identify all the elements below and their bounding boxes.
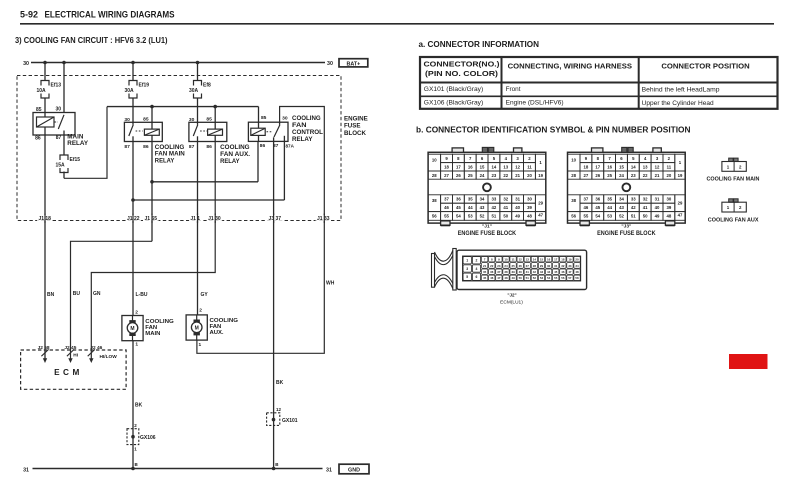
svg-text:40: 40 xyxy=(655,205,660,210)
svg-text:38: 38 xyxy=(432,198,437,203)
svg-text:b. CONNECTOR IDENTIFICATION SY: b. CONNECTOR IDENTIFICATION SYMBOL & PIN… xyxy=(416,126,691,135)
svg-text:31: 31 xyxy=(655,197,660,202)
svg-text:50: 50 xyxy=(503,214,508,219)
svg-text:35: 35 xyxy=(607,197,612,202)
svg-text:40: 40 xyxy=(515,205,520,210)
svg-text:21: 21 xyxy=(483,264,487,268)
svg-text:1: 1 xyxy=(199,342,202,348)
svg-text:30: 30 xyxy=(666,197,671,202)
svg-text:13: 13 xyxy=(643,165,648,170)
svg-text:11: 11 xyxy=(667,165,672,170)
svg-text:RELAY: RELAY xyxy=(292,136,313,143)
svg-text:32: 32 xyxy=(561,264,565,268)
svg-text:RELAY: RELAY xyxy=(220,158,240,165)
svg-text:a. CONNECTOR INFORMATION: a. CONNECTOR INFORMATION xyxy=(419,40,540,49)
svg-text:30: 30 xyxy=(282,116,288,122)
svg-text:43: 43 xyxy=(540,270,544,274)
svg-text:43: 43 xyxy=(619,205,624,210)
svg-text:25: 25 xyxy=(607,173,612,178)
svg-text:14: 14 xyxy=(533,258,537,262)
svg-text:13: 13 xyxy=(526,258,530,262)
svg-text:48: 48 xyxy=(666,214,671,219)
svg-text:WH: WH xyxy=(326,280,335,286)
svg-text:GX106 (Black/Gray): GX106 (Black/Gray) xyxy=(424,99,483,106)
svg-text:BAT+: BAT+ xyxy=(346,61,360,67)
svg-text:30: 30 xyxy=(55,106,61,112)
svg-text:31: 31 xyxy=(554,264,558,268)
svg-text:87: 87 xyxy=(189,144,195,150)
svg-text:50: 50 xyxy=(643,214,648,219)
svg-text:53: 53 xyxy=(468,214,473,219)
svg-text:33: 33 xyxy=(492,197,497,202)
svg-text:25: 25 xyxy=(468,173,473,178)
svg-text:37: 37 xyxy=(584,197,589,202)
svg-text:"J3": "J3" xyxy=(621,223,631,229)
svg-text:15: 15 xyxy=(540,258,544,262)
svg-text:45: 45 xyxy=(483,276,487,280)
svg-text:47: 47 xyxy=(497,276,501,280)
svg-text:4: 4 xyxy=(476,267,478,271)
svg-text:46: 46 xyxy=(490,276,494,280)
svg-text:J1 30: J1 30 xyxy=(208,216,221,222)
svg-text:26: 26 xyxy=(519,264,523,268)
svg-text:11: 11 xyxy=(527,165,532,170)
svg-text:42: 42 xyxy=(631,205,636,210)
svg-text:47: 47 xyxy=(538,213,543,218)
svg-text:48: 48 xyxy=(504,276,508,280)
svg-text:53: 53 xyxy=(607,214,612,219)
svg-text:33: 33 xyxy=(631,197,636,202)
svg-text:17: 17 xyxy=(595,165,600,170)
svg-text:GN: GN xyxy=(93,291,101,297)
svg-text:47: 47 xyxy=(678,213,683,218)
svg-text:32: 32 xyxy=(503,197,508,202)
svg-text:52: 52 xyxy=(480,214,485,219)
svg-text:45: 45 xyxy=(456,205,461,210)
svg-text:2: 2 xyxy=(476,259,478,263)
svg-text:30: 30 xyxy=(327,61,333,67)
svg-text:HI: HI xyxy=(73,353,78,359)
svg-text:27: 27 xyxy=(444,173,449,178)
svg-text:21: 21 xyxy=(515,173,520,178)
svg-text:10: 10 xyxy=(571,158,576,163)
svg-text:25: 25 xyxy=(511,264,515,268)
svg-text:12: 12 xyxy=(276,407,282,412)
svg-text:30: 30 xyxy=(527,197,532,202)
svg-text:53: 53 xyxy=(540,276,544,280)
svg-text:27: 27 xyxy=(526,264,530,268)
svg-text:15: 15 xyxy=(480,165,485,170)
svg-text:Ef15: Ef15 xyxy=(70,157,81,163)
svg-text:Ef8: Ef8 xyxy=(203,83,211,89)
svg-text:16: 16 xyxy=(607,165,612,170)
svg-text:50: 50 xyxy=(519,276,523,280)
svg-text:ENGINE FUSE BLOCK: ENGINE FUSE BLOCK xyxy=(458,231,517,237)
svg-text:46: 46 xyxy=(444,205,449,210)
svg-text:35: 35 xyxy=(483,270,487,274)
svg-text:31: 31 xyxy=(23,468,29,474)
svg-text:MAIN: MAIN xyxy=(145,331,160,337)
svg-text:87: 87 xyxy=(124,144,130,150)
svg-text:14: 14 xyxy=(631,165,636,170)
svg-text:Engine (DSL/HFV6): Engine (DSL/HFV6) xyxy=(506,99,564,106)
svg-text:17: 17 xyxy=(456,165,461,170)
svg-text:6: 6 xyxy=(476,275,478,279)
svg-text:19: 19 xyxy=(568,258,572,262)
svg-text:28: 28 xyxy=(432,173,437,178)
svg-text:45: 45 xyxy=(595,205,600,210)
svg-text:30: 30 xyxy=(189,117,195,123)
svg-text:29: 29 xyxy=(538,201,543,206)
svg-text:37: 37 xyxy=(497,270,501,274)
svg-text:24: 24 xyxy=(619,173,624,178)
svg-text:38: 38 xyxy=(504,270,508,274)
svg-text:47: 47 xyxy=(568,270,572,274)
svg-text:ECM(LU1): ECM(LU1) xyxy=(500,300,523,306)
svg-text:12: 12 xyxy=(515,165,520,170)
svg-text:24: 24 xyxy=(480,173,485,178)
svg-text:"J2": "J2" xyxy=(507,293,516,298)
svg-text:1: 1 xyxy=(466,259,468,263)
svg-text:29: 29 xyxy=(678,201,683,206)
svg-text:30: 30 xyxy=(124,117,130,123)
svg-text:17: 17 xyxy=(554,258,558,262)
svg-text:43: 43 xyxy=(480,205,485,210)
svg-text:2: 2 xyxy=(135,309,138,315)
svg-text:52: 52 xyxy=(533,276,537,280)
svg-text:35: 35 xyxy=(468,197,473,202)
svg-text:3: 3 xyxy=(466,267,468,271)
svg-text:52: 52 xyxy=(619,214,624,219)
svg-text:41: 41 xyxy=(503,205,508,210)
svg-text:GX101 (Black/Gray): GX101 (Black/Gray) xyxy=(424,86,483,93)
svg-text:40: 40 xyxy=(519,270,523,274)
svg-text:COOLING: COOLING xyxy=(292,115,321,122)
svg-text:42: 42 xyxy=(533,270,537,274)
svg-text:5: 5 xyxy=(466,275,468,279)
svg-text:22: 22 xyxy=(643,173,648,178)
svg-text:55: 55 xyxy=(554,276,558,280)
svg-text:45: 45 xyxy=(554,270,558,274)
svg-text:BK: BK xyxy=(135,403,143,409)
svg-text:49: 49 xyxy=(511,276,515,280)
svg-text:56: 56 xyxy=(561,276,565,280)
svg-text:22: 22 xyxy=(503,173,508,178)
svg-text:RELAY: RELAY xyxy=(67,140,89,147)
svg-text:12: 12 xyxy=(655,165,660,170)
svg-text:56: 56 xyxy=(571,214,576,219)
svg-text:20: 20 xyxy=(666,173,671,178)
svg-text:37: 37 xyxy=(444,197,449,202)
svg-text:26: 26 xyxy=(456,173,461,178)
svg-text:18: 18 xyxy=(444,165,449,170)
svg-text:19: 19 xyxy=(538,173,543,178)
svg-text:57: 57 xyxy=(568,276,572,280)
svg-text:1: 1 xyxy=(135,341,138,347)
svg-text:J3 37: J3 37 xyxy=(269,216,282,222)
svg-text:10: 10 xyxy=(432,158,437,163)
svg-text:ENGINE FUSE BLOCK: ENGINE FUSE BLOCK xyxy=(597,231,656,237)
svg-text:11: 11 xyxy=(512,258,515,262)
svg-text:2: 2 xyxy=(199,308,202,314)
svg-text:COOLING FAN AUX: COOLING FAN AUX xyxy=(708,217,759,223)
svg-text:Behind the left HeadLamp: Behind the left HeadLamp xyxy=(642,87,720,94)
svg-text:38: 38 xyxy=(571,198,576,203)
svg-text:20: 20 xyxy=(527,173,532,178)
svg-text:Upper the Cylinder Head: Upper the Cylinder Head xyxy=(642,100,714,107)
svg-text:18: 18 xyxy=(561,258,565,262)
svg-text:24: 24 xyxy=(504,264,508,268)
svg-text:14: 14 xyxy=(492,165,497,170)
svg-text:RELAY: RELAY xyxy=(155,158,175,165)
svg-text:12: 12 xyxy=(519,258,523,262)
svg-text:30A: 30A xyxy=(189,88,199,94)
svg-text:54: 54 xyxy=(547,276,551,280)
svg-text:85: 85 xyxy=(206,116,212,122)
svg-text:56: 56 xyxy=(432,214,437,219)
svg-text:36: 36 xyxy=(595,197,600,202)
svg-text:GY: GY xyxy=(201,292,209,298)
svg-text:85: 85 xyxy=(143,116,149,122)
svg-text:CONTROL: CONTROL xyxy=(292,129,323,136)
svg-text:51: 51 xyxy=(526,276,530,280)
svg-text:30A: 30A xyxy=(125,88,135,94)
svg-text:3) COOLING FAN CIRCUIT : HFV6: 3) COOLING FAN CIRCUIT : HFV6 3.2 (LU1) xyxy=(15,36,168,45)
svg-text:27: 27 xyxy=(584,173,589,178)
svg-text:FAN: FAN xyxy=(292,122,307,129)
svg-text:BU: BU xyxy=(73,291,81,297)
svg-text:L-BU: L-BU xyxy=(136,292,148,298)
svg-text:15: 15 xyxy=(619,165,624,170)
svg-text:E C M: E C M xyxy=(54,368,80,377)
svg-text:M: M xyxy=(195,326,199,332)
svg-text:26: 26 xyxy=(595,173,600,178)
svg-text:36: 36 xyxy=(490,270,494,274)
svg-text:48: 48 xyxy=(527,214,532,219)
svg-text:49: 49 xyxy=(655,214,660,219)
svg-text:39: 39 xyxy=(511,270,515,274)
svg-text:(PIN NO. COLOR): (PIN NO. COLOR) xyxy=(425,69,499,78)
svg-text:34: 34 xyxy=(619,197,624,202)
svg-text:CONNECTING, WIRING HARNESS: CONNECTING, WIRING HARNESS xyxy=(508,61,632,70)
svg-text:41: 41 xyxy=(526,270,530,274)
svg-text:54: 54 xyxy=(456,214,461,219)
svg-text:85: 85 xyxy=(261,115,267,121)
svg-text:BLOCK: BLOCK xyxy=(344,130,367,137)
svg-text:31: 31 xyxy=(326,468,332,474)
svg-text:GX106: GX106 xyxy=(140,435,156,441)
svg-text:ELECTRICAL WIRING DIAGRAMS: ELECTRICAL WIRING DIAGRAMS xyxy=(45,10,175,20)
svg-text:J1 33: J1 33 xyxy=(317,216,330,222)
svg-text:87A: 87A xyxy=(286,143,295,148)
svg-text:41: 41 xyxy=(643,205,648,210)
svg-text:20: 20 xyxy=(575,258,579,262)
svg-text:29: 29 xyxy=(540,264,544,268)
svg-text:33: 33 xyxy=(568,264,572,268)
svg-text:48: 48 xyxy=(575,270,579,274)
svg-text:86: 86 xyxy=(143,144,149,150)
svg-text:44: 44 xyxy=(607,205,612,210)
svg-text:21: 21 xyxy=(655,173,660,178)
svg-text:42: 42 xyxy=(492,205,497,210)
svg-text:86: 86 xyxy=(206,144,212,150)
svg-text:18: 18 xyxy=(584,165,589,170)
svg-text:19: 19 xyxy=(678,173,683,178)
svg-text:22: 22 xyxy=(490,264,494,268)
svg-text:28: 28 xyxy=(571,173,576,178)
svg-text:Ef19: Ef19 xyxy=(139,83,150,89)
svg-text:86: 86 xyxy=(35,136,41,142)
svg-text:5-92: 5-92 xyxy=(20,10,38,20)
svg-text:Ef13: Ef13 xyxy=(51,83,62,89)
svg-text:HI/LOW: HI/LOW xyxy=(100,354,118,360)
svg-text:54: 54 xyxy=(595,214,600,219)
svg-text:J1 55: J1 55 xyxy=(145,216,158,222)
svg-text:J2 46: J2 46 xyxy=(90,345,102,351)
svg-text:J1 1: J1 1 xyxy=(190,216,200,222)
svg-text:23: 23 xyxy=(631,173,636,178)
svg-text:"J1": "J1" xyxy=(482,223,492,229)
svg-text:16: 16 xyxy=(468,165,473,170)
svg-text:ENGINE: ENGINE xyxy=(344,115,368,122)
svg-text:10A: 10A xyxy=(37,88,47,94)
svg-text:49: 49 xyxy=(515,214,520,219)
svg-text:GX101: GX101 xyxy=(282,418,298,424)
svg-text:46: 46 xyxy=(584,205,589,210)
svg-text:58: 58 xyxy=(575,276,579,280)
svg-text:COOLING: COOLING xyxy=(220,144,250,151)
svg-text:85: 85 xyxy=(36,107,42,113)
svg-text:55: 55 xyxy=(584,214,589,219)
svg-text:32: 32 xyxy=(643,197,648,202)
svg-text:23: 23 xyxy=(492,173,497,178)
svg-text:86: 86 xyxy=(260,143,266,149)
svg-text:55: 55 xyxy=(444,214,449,219)
svg-text:39: 39 xyxy=(666,205,671,210)
svg-text:16: 16 xyxy=(547,258,551,262)
svg-text:51: 51 xyxy=(631,214,636,219)
svg-text:Front: Front xyxy=(506,86,521,93)
svg-text:BK: BK xyxy=(276,380,284,386)
svg-text:J2 45: J2 45 xyxy=(64,345,76,351)
svg-text:87: 87 xyxy=(56,135,62,141)
svg-text:13: 13 xyxy=(503,165,508,170)
svg-text:15A: 15A xyxy=(56,163,66,169)
svg-text:GND: GND xyxy=(348,467,360,473)
svg-text:46: 46 xyxy=(561,270,565,274)
svg-text:CONNECTOR(NO.): CONNECTOR(NO.) xyxy=(424,60,501,69)
svg-text:30: 30 xyxy=(547,264,551,268)
svg-text:BN: BN xyxy=(47,292,55,298)
svg-text:AUX.: AUX. xyxy=(210,330,224,336)
svg-text:39: 39 xyxy=(527,205,532,210)
svg-text:36: 36 xyxy=(456,197,461,202)
svg-text:COOLING FAN MAIN: COOLING FAN MAIN xyxy=(707,176,760,182)
svg-text:34: 34 xyxy=(575,264,579,268)
svg-text:23: 23 xyxy=(497,264,501,268)
svg-text:34: 34 xyxy=(480,197,485,202)
svg-text:51: 51 xyxy=(492,214,497,219)
svg-text:10: 10 xyxy=(504,258,508,262)
svg-text:44: 44 xyxy=(547,270,551,274)
svg-text:28: 28 xyxy=(533,264,537,268)
svg-text:31: 31 xyxy=(515,197,520,202)
svg-text:30: 30 xyxy=(23,61,29,67)
svg-text:FUSE: FUSE xyxy=(344,123,361,130)
svg-text:M: M xyxy=(130,326,134,332)
svg-text:CONNECTOR POSITION: CONNECTOR POSITION xyxy=(661,61,749,70)
svg-text:44: 44 xyxy=(468,205,473,210)
